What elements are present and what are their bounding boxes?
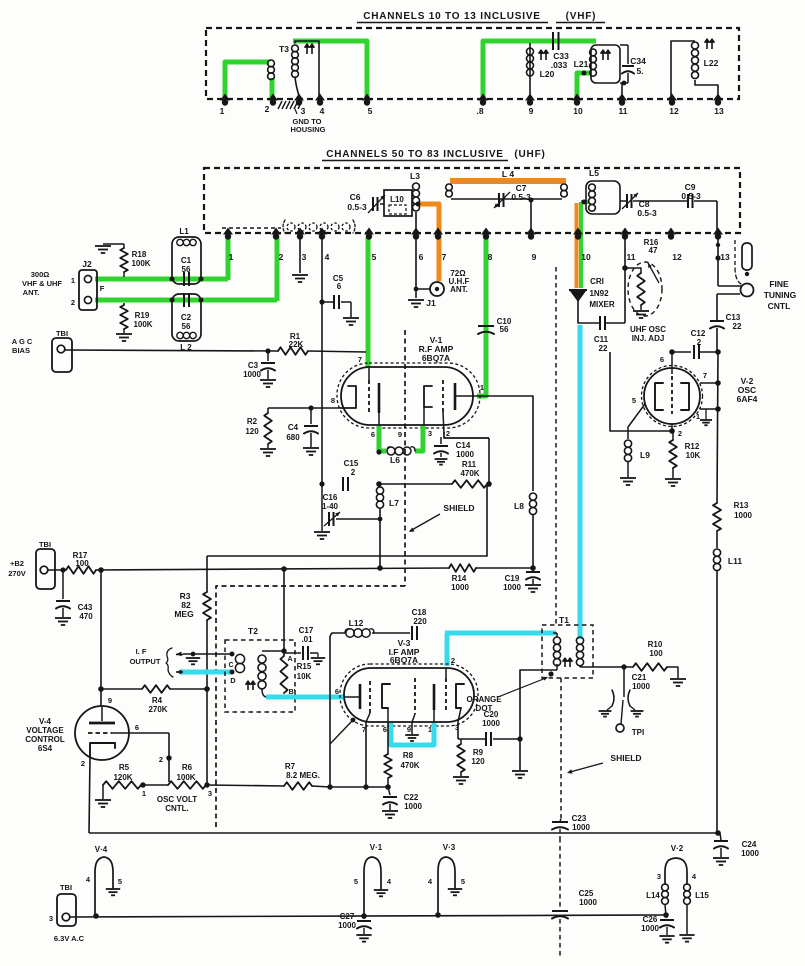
svg-text:2: 2 xyxy=(81,759,85,768)
svg-text:1: 1 xyxy=(229,252,234,262)
wire green J2-2 to terminal 2 xyxy=(95,298,277,303)
wire T1 secondary output xyxy=(579,666,581,667)
svg-text:DOT: DOT xyxy=(476,704,493,713)
trimmer capacitor C8 0.5-3 xyxy=(620,200,626,202)
fine tuning control knob xyxy=(718,285,741,287)
VHF tuner strip dashed enclosure xyxy=(206,28,739,99)
svg-text:6: 6 xyxy=(383,725,387,734)
svg-text:INJ. ADJ: INJ. ADJ xyxy=(632,334,665,343)
wire V3 grid bottom rail xyxy=(365,722,367,787)
svg-text:2: 2 xyxy=(446,429,450,438)
svg-text:13: 13 xyxy=(714,106,724,116)
svg-text:6: 6 xyxy=(660,355,664,364)
V3 plate right xyxy=(456,684,464,708)
orange dot marker xyxy=(548,671,553,676)
svg-text:10: 10 xyxy=(573,106,583,116)
UHF strip terminal 6 ground return xyxy=(415,238,417,298)
svg-text:120: 120 xyxy=(245,427,259,436)
svg-text:L14: L14 xyxy=(646,891,660,900)
svg-text:7: 7 xyxy=(442,252,447,262)
svg-text:C23: C23 xyxy=(572,814,587,823)
svg-text:8: 8 xyxy=(488,252,493,262)
wire green terminal 8 riser xyxy=(483,41,596,100)
svg-text:R14: R14 xyxy=(452,574,467,583)
wire cyan mixer IF output to T1 xyxy=(578,325,583,639)
wire green V1 pin6 to L6 to pin3 xyxy=(379,426,386,451)
svg-text:C26: C26 xyxy=(643,915,658,924)
shield partition below T1 xyxy=(560,678,562,819)
svg-text:1: 1 xyxy=(71,276,75,285)
svg-text:L7: L7 xyxy=(389,498,399,508)
svg-text:R19: R19 xyxy=(135,311,150,320)
svg-text:1000: 1000 xyxy=(741,849,759,858)
svg-text:1000: 1000 xyxy=(572,823,590,832)
svg-text:L12: L12 xyxy=(349,618,364,628)
svg-text:(UHF): (UHF) xyxy=(514,149,545,160)
wire AGC return line xyxy=(207,484,487,556)
V3 cathode left xyxy=(345,696,360,698)
svg-text:CONTROL: CONTROL xyxy=(25,735,65,744)
shield partition dashed mixer xyxy=(555,267,557,624)
coil L11 xyxy=(716,531,718,548)
svg-text:1000: 1000 xyxy=(456,450,474,459)
svg-text:R4: R4 xyxy=(152,696,163,705)
svg-text:9: 9 xyxy=(407,725,411,734)
resistor R8 470K xyxy=(387,722,389,754)
UHF strip terminal 12 xyxy=(666,228,676,235)
VHF strip terminal 13 xyxy=(713,94,723,101)
coil L8 xyxy=(529,493,536,500)
svg-text:1: 1 xyxy=(428,725,432,734)
svg-text:120K: 120K xyxy=(113,773,132,782)
svg-text:1: 1 xyxy=(480,383,484,392)
svg-text:HOUSING: HOUSING xyxy=(290,125,325,134)
VHF strip terminal 1 xyxy=(220,94,230,101)
svg-text:TUNING: TUNING xyxy=(764,290,797,300)
wire B minus rail xyxy=(89,832,718,834)
svg-text:L 4: L 4 xyxy=(502,169,514,179)
svg-text:C12: C12 xyxy=(691,329,706,338)
svg-text:22: 22 xyxy=(733,322,742,331)
svg-text:TPI: TPI xyxy=(632,728,644,737)
VHF strip terminal 10 xyxy=(572,94,582,101)
svg-text:C19: C19 xyxy=(505,574,520,583)
svg-text:F: F xyxy=(100,284,105,293)
V2 feedback loop wire xyxy=(610,352,672,431)
svg-text:C: C xyxy=(228,662,233,669)
wire green terminal1 to T3 primary xyxy=(225,62,269,101)
svg-text:100K: 100K xyxy=(131,259,150,268)
svg-text:V·3: V·3 xyxy=(443,843,456,852)
V1 cathode left xyxy=(341,386,356,408)
svg-text:C25: C25 xyxy=(579,889,594,898)
V1 grid right xyxy=(442,380,444,412)
svg-text:0.5-3: 0.5-3 xyxy=(511,192,531,202)
svg-text:1000: 1000 xyxy=(404,802,422,811)
svg-text:6BQ7A: 6BQ7A xyxy=(422,353,450,363)
coil L14 xyxy=(662,884,669,891)
wire green terminal 8 through C10 to V1 plate xyxy=(477,237,486,396)
svg-text:1000: 1000 xyxy=(451,583,469,592)
svg-text:6: 6 xyxy=(335,687,339,696)
svg-text:9: 9 xyxy=(108,696,112,705)
svg-text:VOLTAGE: VOLTAGE xyxy=(26,726,64,735)
svg-text:C11: C11 xyxy=(594,335,609,344)
ganged tuning linkage symbol xyxy=(222,227,281,229)
V2 left element xyxy=(655,383,663,410)
svg-text:22: 22 xyxy=(599,344,608,353)
svg-text:C43: C43 xyxy=(78,603,93,612)
svg-text:L15: L15 xyxy=(695,891,709,900)
svg-text:7: 7 xyxy=(358,355,362,364)
svg-text:L6: L6 xyxy=(390,455,400,465)
svg-text:C21: C21 xyxy=(632,673,647,682)
svg-text:T2: T2 xyxy=(248,626,258,636)
wire V3 cathode column xyxy=(329,636,331,787)
wire terminal 3 ground xyxy=(299,238,301,273)
coil L7 xyxy=(376,487,383,494)
coil L9 xyxy=(624,440,631,447)
UHF strip terminal 2 xyxy=(271,228,281,235)
capacitor C10 56 xyxy=(478,325,494,327)
svg-text:4: 4 xyxy=(320,106,325,116)
svg-text:5: 5 xyxy=(372,252,377,262)
svg-text:CHANNELS 50 TO 83 INCLUSIVE: CHANNELS 50 TO 83 INCLUSIVE xyxy=(326,149,504,160)
wire orange link L4 xyxy=(450,178,566,184)
UHF strip terminal 13 xyxy=(713,228,723,235)
svg-text:MIXER: MIXER xyxy=(589,300,615,309)
svg-text:CRI: CRI xyxy=(590,277,604,286)
svg-text:L10: L10 xyxy=(390,195,404,204)
svg-text:56: 56 xyxy=(500,325,509,334)
svg-text:R2: R2 xyxy=(247,417,258,426)
VHF strip terminal 9 xyxy=(525,94,535,101)
svg-text:D: D xyxy=(230,676,236,685)
coil L2 / capacitor C2 56 block xyxy=(172,294,201,341)
capacitor C3 1000 xyxy=(265,348,270,353)
svg-text:5: 5 xyxy=(368,106,373,116)
svg-text:BIAS: BIAS xyxy=(12,346,30,355)
wire T1 primary return to ground xyxy=(520,670,557,770)
V1 plate left xyxy=(378,383,381,413)
svg-text:2: 2 xyxy=(451,656,455,665)
svg-text:V·2: V·2 xyxy=(671,844,684,853)
svg-text:L8: L8 xyxy=(514,501,524,511)
svg-text:1N92: 1N92 xyxy=(589,289,609,298)
svg-text:C13: C13 xyxy=(726,313,741,322)
svg-text:6.3V A.C: 6.3V A.C xyxy=(54,934,85,943)
svg-text:R11: R11 xyxy=(462,460,477,469)
svg-text:10K: 10K xyxy=(297,672,312,681)
svg-text:L11: L11 xyxy=(728,556,742,566)
UHF strip terminal 4 xyxy=(317,228,327,235)
svg-text:SHIELD: SHIELD xyxy=(443,503,474,513)
svg-text:3: 3 xyxy=(302,252,307,262)
svg-text:12: 12 xyxy=(672,252,682,262)
V1 cathode right xyxy=(424,386,432,407)
svg-text:5.: 5. xyxy=(636,66,643,76)
svg-text:ORANGE: ORANGE xyxy=(466,695,502,704)
svg-text:0.5-3: 0.5-3 xyxy=(347,202,367,212)
svg-text:7: 7 xyxy=(703,371,707,380)
wire grid leak line xyxy=(379,483,452,485)
V3 grid left xyxy=(369,681,371,713)
svg-text:C34: C34 xyxy=(630,56,646,66)
svg-text:1000: 1000 xyxy=(579,898,597,907)
V3 grid middle xyxy=(414,678,416,714)
svg-text:3: 3 xyxy=(657,872,661,881)
VHF strip terminal 3 xyxy=(294,94,304,101)
VHF strip terminal 2 xyxy=(268,94,278,101)
svg-text:.01: .01 xyxy=(301,635,313,644)
wire V2 column to bottom rail xyxy=(716,571,718,833)
svg-text:R9: R9 xyxy=(473,748,484,757)
svg-text:680: 680 xyxy=(286,433,300,442)
capacitor C11 22 xyxy=(599,316,601,330)
V2 right element xyxy=(681,383,689,410)
wire terminal 4 column xyxy=(321,238,323,484)
wire cyan V3 pin6 to pin1 xyxy=(391,723,434,745)
UHF strip terminal 9 xyxy=(526,228,536,235)
svg-text:47: 47 xyxy=(649,246,658,255)
wire C9 to terminal 13 xyxy=(716,201,718,233)
shield partition dashed through V1 xyxy=(404,330,406,586)
svg-text:1: 1 xyxy=(142,789,146,798)
svg-text:2: 2 xyxy=(279,252,284,262)
UHF strip terminal 6 xyxy=(411,228,421,235)
svg-text:1: 1 xyxy=(220,106,225,116)
svg-text:.033: .033 xyxy=(551,60,568,70)
svg-text:10: 10 xyxy=(581,252,591,262)
svg-text:OSC VOLT: OSC VOLT xyxy=(157,795,197,804)
svg-text:C16: C16 xyxy=(323,493,338,502)
svg-text:3: 3 xyxy=(208,789,212,798)
V4 plate xyxy=(101,706,103,721)
VHF strip terminal 4 xyxy=(315,94,325,101)
V4 cathode xyxy=(90,743,115,757)
svg-text:4: 4 xyxy=(325,252,330,262)
svg-text:6: 6 xyxy=(419,252,424,262)
wire V4 grid tap xyxy=(168,733,170,782)
svg-text:L22: L22 xyxy=(704,58,719,68)
UHF strip terminal 8 xyxy=(481,228,491,235)
resistor R12 10K xyxy=(669,440,677,468)
svg-text:C27: C27 xyxy=(340,912,355,921)
svg-text:L3: L3 xyxy=(410,171,420,181)
svg-text:V·1: V·1 xyxy=(370,843,383,852)
V4 grid xyxy=(88,732,112,734)
svg-text:L5: L5 xyxy=(589,168,599,178)
UHF strip terminal 5 xyxy=(364,228,374,235)
svg-text:0.5-3: 0.5-3 xyxy=(637,208,657,218)
svg-text:5: 5 xyxy=(118,877,122,886)
svg-text:V-4: V-4 xyxy=(39,717,52,726)
svg-text:R6: R6 xyxy=(182,763,193,772)
svg-text:6AF4: 6AF4 xyxy=(737,394,758,404)
svg-text:10K: 10K xyxy=(686,451,701,460)
VHF strip terminal 12 xyxy=(667,94,677,101)
svg-text:+B2: +B2 xyxy=(10,559,24,568)
VHF strip terminal 11 xyxy=(617,94,627,101)
wire terminal 13 to fine tuning xyxy=(717,238,719,286)
capacitor C24 1000 xyxy=(720,833,721,840)
svg-text:CNTL.: CNTL. xyxy=(165,804,189,813)
wire green terminal 10 to L21 tap xyxy=(577,73,589,100)
svg-text:C15: C15 xyxy=(344,459,359,468)
svg-text:R8: R8 xyxy=(403,751,414,760)
wire IF output top with arrow xyxy=(183,653,232,655)
resistor R3 82 MEG xyxy=(206,556,208,592)
svg-text:C24: C24 xyxy=(742,840,757,849)
svg-text:(VHF): (VHF) xyxy=(566,11,597,22)
capacitor C34 5. xyxy=(620,44,628,46)
svg-text:8: 8 xyxy=(331,396,335,405)
svg-text:ANT.: ANT. xyxy=(23,288,40,297)
wire cathode rail xyxy=(330,786,388,788)
svg-text:TBI: TBI xyxy=(56,329,68,338)
svg-text:A: A xyxy=(287,656,292,663)
svg-text:11: 11 xyxy=(619,106,628,116)
svg-text:6: 6 xyxy=(371,430,375,439)
coil L20 xyxy=(529,43,531,100)
V3 cathode right xyxy=(433,684,436,710)
UHF strip terminal 10 xyxy=(573,228,583,235)
coil L6 xyxy=(387,447,395,455)
capacitor C16 1-40 trimmer xyxy=(319,481,324,486)
svg-text:R5: R5 xyxy=(119,763,130,772)
capacitor C21 1000 feedthrough xyxy=(623,667,625,697)
svg-text:CNTL: CNTL xyxy=(768,301,791,311)
antenna jack J1 72 ohm xyxy=(430,282,444,296)
resistor R14 1000 xyxy=(449,564,476,572)
capacitor C26 1000 xyxy=(663,912,669,918)
wire green terminal 5 to V1 grid xyxy=(366,237,371,367)
svg-text:TBI: TBI xyxy=(60,883,72,892)
wire CR1 to C11 xyxy=(578,301,599,323)
resistor R2 120 xyxy=(267,408,269,413)
svg-text:6: 6 xyxy=(337,282,342,291)
svg-text:5: 5 xyxy=(461,877,465,886)
svg-text:R15: R15 xyxy=(297,662,312,671)
svg-text:L1: L1 xyxy=(179,227,189,236)
svg-text:9: 9 xyxy=(529,106,534,116)
wire terminal 11 to L21 xyxy=(621,83,623,100)
resistor R15 10K xyxy=(280,656,287,693)
svg-text:T1: T1 xyxy=(559,615,569,625)
svg-text:I. F: I. F xyxy=(136,647,147,656)
svg-text:C18: C18 xyxy=(412,608,427,617)
capacitor C33 .033 xyxy=(552,32,554,50)
wire green T3 primary to terminal 2 xyxy=(270,78,275,100)
svg-text:C2: C2 xyxy=(181,313,192,322)
svg-text:6: 6 xyxy=(135,723,139,732)
shield capacitor C25 1000 xyxy=(552,910,568,912)
shield enclosure dashed box IF section xyxy=(216,586,405,830)
VHF strip terminal 5 xyxy=(362,94,372,101)
wire +B rail xyxy=(48,569,66,571)
test point TP1 xyxy=(621,700,623,724)
svg-text:L20: L20 xyxy=(540,69,555,79)
svg-text:8.2 MEG.: 8.2 MEG. xyxy=(286,771,320,780)
coil L15 xyxy=(684,884,691,891)
resistor R19 100K xyxy=(123,303,125,305)
svg-text:ANT.: ANT. xyxy=(450,285,468,294)
UHF strip terminal 11 xyxy=(620,228,630,235)
svg-text:0.5-3: 0.5-3 xyxy=(681,191,701,201)
svg-text:FINE: FINE xyxy=(769,279,789,289)
svg-text:1000: 1000 xyxy=(632,682,650,691)
svg-text:VHF & UHF: VHF & UHF xyxy=(22,279,62,288)
svg-text:C22: C22 xyxy=(404,793,419,802)
V2 grid xyxy=(671,352,673,374)
svg-text:12: 12 xyxy=(669,106,679,116)
UHF strip terminal 3 xyxy=(295,228,305,235)
V1 plate right xyxy=(454,383,457,410)
ground hatch GND TO HOUSING at terminal 3 xyxy=(278,101,282,109)
svg-text:5: 5 xyxy=(632,396,636,405)
wire V3 plate to C20 xyxy=(457,722,459,739)
svg-text:270K: 270K xyxy=(148,705,167,714)
svg-text:270V: 270V xyxy=(8,569,26,578)
svg-text:9: 9 xyxy=(532,252,537,262)
UHF strip terminal 7 xyxy=(433,228,443,235)
svg-text:R12: R12 xyxy=(685,442,700,451)
wire orange L3 tap to J1 xyxy=(419,204,439,281)
wire heater rail 6.3VAC xyxy=(70,915,667,917)
V3 pin 9 ground xyxy=(411,722,413,734)
resistor R9 120 xyxy=(460,739,462,744)
svg-text:2: 2 xyxy=(159,755,163,764)
svg-text:UHF OSC: UHF OSC xyxy=(630,325,666,334)
svg-text:TBI: TBI xyxy=(39,540,51,549)
svg-text:CHANNELS 10 TO 13 INCLUSIVE: CHANNELS 10 TO 13 INCLUSIVE xyxy=(363,11,541,22)
resistor R13 1000 xyxy=(717,352,718,503)
svg-text:470K: 470K xyxy=(460,469,479,478)
svg-text:L9: L9 xyxy=(640,450,650,460)
svg-text:A G C: A G C xyxy=(12,337,33,346)
svg-text:C17: C17 xyxy=(299,626,314,635)
svg-text:R10: R10 xyxy=(648,640,663,649)
svg-text:1000: 1000 xyxy=(338,921,356,930)
svg-text:1000: 1000 xyxy=(243,370,261,379)
wire V4 plate column xyxy=(100,570,102,706)
capacitor C19 1000 xyxy=(530,565,536,571)
wire orange-green pair L5 to mixer CR1 xyxy=(575,203,579,288)
resistor R18 100K xyxy=(103,243,124,245)
svg-text:1000: 1000 xyxy=(641,924,659,933)
wire green J2-1 to terminal 1 xyxy=(95,277,228,282)
capacitor C13 22 xyxy=(710,320,724,322)
resistor R4 270K xyxy=(101,688,142,690)
wire C7 junction to terminal 9 xyxy=(529,198,534,203)
wire AGC bias line xyxy=(65,350,278,351)
svg-text:100K: 100K xyxy=(133,320,152,329)
svg-text:5: 5 xyxy=(354,877,358,886)
capacitor C4 680 xyxy=(308,405,313,410)
svg-text:100K: 100K xyxy=(176,773,195,782)
shield capacitor C23 1000 xyxy=(560,819,561,821)
svg-text:2: 2 xyxy=(265,104,270,114)
svg-text:220: 220 xyxy=(413,617,427,626)
svg-text:6S4: 6S4 xyxy=(38,744,53,753)
svg-text:C4: C4 xyxy=(288,423,299,432)
wire +B to T2 A xyxy=(281,566,287,572)
svg-text:J2: J2 xyxy=(82,259,92,269)
capacitor C14 1000 xyxy=(444,432,489,438)
svg-text:3: 3 xyxy=(428,429,432,438)
svg-text:2: 2 xyxy=(351,468,356,477)
capacitor C27 1000 xyxy=(363,916,365,919)
